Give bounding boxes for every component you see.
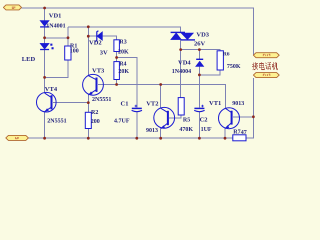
svg-text:20K: 20K [118,50,129,56]
svg-text:VT1: VT1 [209,100,221,107]
svg-text:VT4: VT4 [45,86,58,93]
svg-text:1N4004: 1N4004 [172,69,191,75]
svg-text:LED: LED [22,56,36,63]
svg-text:26V: 26V [194,40,206,47]
svg-text:47: 47 [241,130,247,136]
svg-text:R6: R6 [223,51,230,57]
svg-text:VT2: VT2 [146,101,158,108]
svg-text:20K: 20K [118,69,129,75]
svg-text:VD4: VD4 [178,60,191,67]
svg-text:VD1: VD1 [49,13,62,20]
svg-text:4.7UF: 4.7UF [114,119,130,125]
svg-text:200: 200 [91,119,100,125]
svg-text:2N5551: 2N5551 [47,118,66,124]
svg-text:VD2: VD2 [89,39,102,46]
svg-text:C1: C1 [121,101,129,108]
svg-text:R7: R7 [233,129,240,135]
svg-text:VT3: VT3 [92,68,105,75]
svg-text:100: 100 [70,48,79,54]
svg-text:9013: 9013 [146,128,158,134]
svg-text:R3: R3 [119,40,126,46]
svg-text:3V: 3V [100,49,108,56]
svg-text:750K: 750K [227,64,241,70]
svg-text:2N5551: 2N5551 [92,97,111,103]
svg-text:R2: R2 [91,110,98,116]
svg-text:VD3: VD3 [196,32,209,39]
svg-text:9013: 9013 [232,101,244,107]
svg-text:1N4001: 1N4001 [46,24,65,30]
svg-text:R4: R4 [119,61,126,67]
svg-text:470K: 470K [179,127,193,133]
svg-text:R5: R5 [183,117,190,123]
svg-text:C2: C2 [200,116,208,123]
svg-text:1UF: 1UF [201,127,212,133]
